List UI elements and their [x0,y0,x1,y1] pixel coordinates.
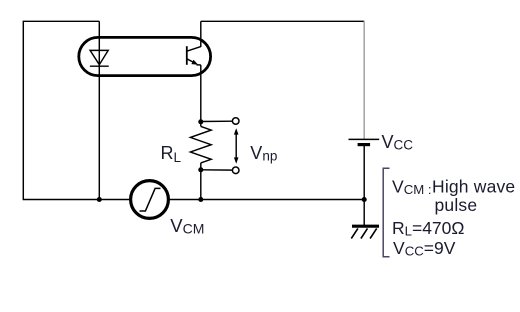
svg-text:RL: RL [161,143,182,165]
wire: to top terminal [201,120,233,122]
svg-text:VCC: VCC [382,132,414,153]
wire: bottom rail right of source [168,199,364,201]
wire: collector riser [200,21,202,47]
svg-text:VCM :: VCM : [392,176,432,197]
junction dot (bottom rail / ground) [362,197,367,202]
wire: resistor bottom to bottom rail [200,163,202,200]
resistor RL zigzag [190,126,211,163]
junction dot (bottom rail / resistor) [198,197,203,202]
junction dot (resistor bottom) [198,167,203,172]
LED (emitter diode of optocoupler) [90,50,109,66]
wire: left loop (top, left, bottom sides) [23,21,99,199]
phototransistor of optocoupler [187,46,201,65]
wire: emitter down to resistor [200,65,202,127]
svg-text:High wave: High wave [432,176,515,196]
junction dot (resistor top) [198,119,203,124]
note bracket [383,168,389,256]
svg-text:RL=470Ω: RL=470Ω [392,218,464,239]
svg-text:VCC=9V: VCC=9V [393,238,456,259]
terminal circle (bottom) [232,167,239,174]
svg-text:VCM: VCM [170,215,204,237]
svg-text:pulse: pulse [435,195,478,215]
wire: LED branch vertical (right side of loop) [98,21,100,199]
wire: bottom rail left of source [99,199,131,201]
wire: gray battery lead [363,21,365,139]
battery VCC [349,139,380,144]
terminal circle (top) [232,118,239,125]
wire: top rail [201,20,364,22]
wire: to bottom terminal [201,169,233,171]
Vnp measurement arrow (double headed) [234,128,239,163]
source VCM (circle with ramp symbol) [131,181,169,219]
junction dot (LED / bottom rail) [97,197,102,202]
wire: battery negative to ground [363,145,365,226]
svg-text:Vnp: Vnp [250,143,277,164]
ground symbol [351,226,379,238]
optocoupler body U1 [79,37,211,75]
